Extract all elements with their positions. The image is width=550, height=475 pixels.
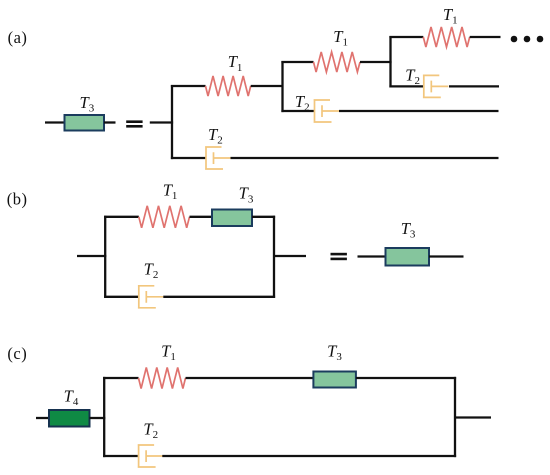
equals sign (b) (331, 253, 347, 260)
wire (a) ladder stage-2 vertical (281, 61, 283, 112)
wire (b) loop right vertical (273, 216, 275, 298)
wire (c) loop right vertical (454, 377, 456, 457)
wire (b) left lead (77, 255, 106, 257)
resistor T1 (a, stage 2) (314, 52, 361, 72)
wire (c) loop left vertical (103, 377, 105, 457)
block T3 (b, in loop) (212, 210, 252, 227)
svg-text:T3: T3 (80, 93, 95, 115)
contact element T2 (a, stage 3) (423, 75, 448, 97)
wire (b) top branch left (104, 216, 139, 218)
resistor T1 (c) (139, 368, 186, 389)
wire (c) right lead (455, 416, 491, 418)
svg-text:T2: T2 (208, 125, 223, 147)
wire (c) top branch left (103, 377, 138, 379)
wire (b) right lead (274, 255, 306, 257)
resistor T1 (b) (139, 206, 190, 228)
svg-text:T3: T3 (239, 184, 254, 206)
contact element T2 (a, stage 2) (314, 100, 339, 122)
wire (a) stage-2 top branch left (281, 61, 313, 63)
svg-text:T2: T2 (143, 419, 158, 441)
block T3 (b, right) (386, 248, 430, 266)
wire (b) top branch right (252, 216, 275, 218)
contact element T2 (c) (138, 445, 163, 467)
wire (b) bottom branch left (104, 296, 139, 298)
contact element T2 (a, stage 1) (205, 147, 230, 169)
wire (c) left lead (36, 417, 50, 419)
svg-text:T2: T2 (295, 92, 310, 114)
block T3 (a) (65, 115, 105, 131)
wire (a) into ladder input node (150, 121, 173, 123)
wire (b) lead into right T3 block (358, 255, 386, 257)
wire (c) between T4 and loop (90, 417, 106, 419)
wire (a) stage-3 bottom branch left (389, 85, 424, 87)
resistor T1 (a, stage 3) (423, 27, 469, 47)
wire (a) stage-1 bottom branch left (171, 157, 206, 159)
svg-text:T1: T1 (228, 52, 243, 74)
resistor T1 (a, stage 1) (206, 76, 251, 96)
wire (b) loop left vertical (104, 216, 106, 298)
wire (c) top branch right (356, 377, 456, 379)
svg-text:(c): (c) (7, 344, 27, 363)
wire (b) top branch middle (190, 216, 213, 218)
wire (a) stage-2 top branch right (360, 61, 392, 63)
svg-text:T1: T1 (333, 27, 348, 49)
wire (a) left lead into T3 block (45, 121, 65, 123)
block T4 (c) (49, 410, 90, 427)
contact element T2 (b) (138, 286, 163, 308)
wire (a) stage-3 top branch right (470, 36, 501, 38)
svg-text:(a): (a) (8, 28, 28, 47)
svg-text:T3: T3 (327, 341, 342, 363)
wire (a) stage-2 bottom branch left (281, 110, 314, 112)
svg-text:(b): (b) (7, 189, 28, 208)
wire (b) bottom branch right (163, 296, 275, 298)
svg-text:T1: T1 (443, 5, 458, 27)
wire (b) right of right T3 block (429, 255, 464, 257)
wire (c) bottom branch right (162, 455, 456, 457)
svg-text:T3: T3 (401, 219, 416, 241)
wire (a) ladder stage-1 vertical (171, 85, 173, 159)
svg-text:T2: T2 (405, 65, 420, 87)
wire (a) ladder stage-3 vertical (389, 36, 391, 88)
ellipsis dots (a) (511, 36, 544, 43)
wire (a) stage-1 top branch right (251, 85, 283, 87)
svg-text:T4: T4 (64, 387, 79, 409)
svg-text:T1: T1 (163, 181, 178, 203)
wire (a) right of T3 block (104, 121, 116, 123)
wire (c) top branch middle (186, 377, 314, 379)
wire (c) bottom branch left (103, 455, 138, 457)
svg-text:T2: T2 (144, 260, 159, 282)
wire (a) stage-1 bottom branch right (231, 157, 499, 159)
wire (a) stage-3 bottom branch right (449, 85, 499, 87)
equals sign (a) (126, 120, 142, 127)
block T3 (c) (313, 372, 356, 388)
wire (a) stage-1 top branch left (171, 85, 206, 87)
wire (a) stage-3 top branch left (389, 36, 423, 38)
wire (a) stage-2 bottom branch right (339, 110, 499, 112)
svg-text:T1: T1 (161, 341, 176, 363)
